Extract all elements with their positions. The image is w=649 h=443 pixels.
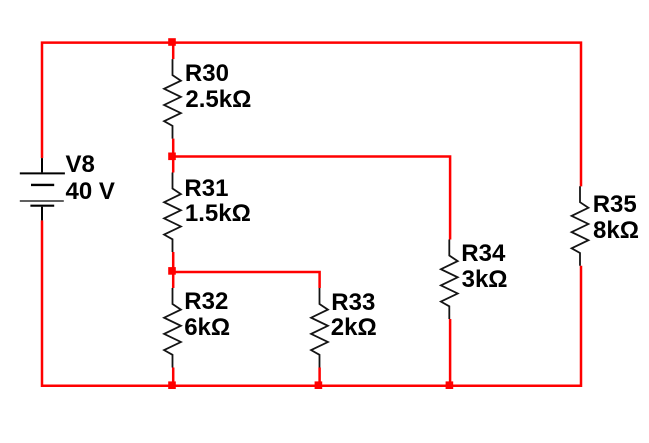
wire: outer loop lower (right bus lower, bottom bus, left bus lower) xyxy=(42,220,581,385)
junction node top bus / R30 xyxy=(168,38,176,46)
label R33 value 2k xyxy=(331,316,377,340)
resistor R34 xyxy=(441,240,458,320)
wire: R30 bottom to node B junction xyxy=(172,139,175,157)
junction node B xyxy=(168,153,176,161)
label R35 value 8k xyxy=(593,219,639,243)
junction node C xyxy=(168,267,176,275)
label R33 refdes xyxy=(331,291,375,315)
resistor R32 xyxy=(164,288,181,368)
wire: R32 bottom to bottom bus xyxy=(172,368,175,386)
wire: outer loop upper (left bus top, top bus, right bus upper) xyxy=(42,43,581,187)
junction bottom bus / R32 xyxy=(168,381,176,389)
wire: R31 bottom to node C junction xyxy=(172,252,175,272)
label R32 refdes xyxy=(184,290,228,314)
resistor R31 xyxy=(164,173,181,253)
label R30 refdes xyxy=(185,62,229,86)
label R31 value 1.5k xyxy=(185,202,251,226)
resistor R33 xyxy=(311,288,328,368)
label R34 refdes xyxy=(461,242,505,266)
wire: node B junction to R31 top xyxy=(172,157,175,173)
wire: R34 bottom to bottom bus xyxy=(449,319,452,386)
wire: node C junction to R32 top xyxy=(172,272,175,288)
junction bottom bus / R34 xyxy=(446,381,454,389)
label R31 refdes xyxy=(184,177,228,201)
resistor R35 xyxy=(572,186,589,266)
wire: node B horizontal (junction under R30 to R34 top) xyxy=(173,157,450,240)
label R34 value 3k xyxy=(462,268,508,292)
label V8 value 40 V xyxy=(66,180,115,204)
wire: R33 bottom to bottom bus xyxy=(318,368,321,386)
wire: node C horizontal (junction under R31 to R33 top) xyxy=(173,272,319,288)
battery V8 xyxy=(20,158,65,220)
label V8 refdes xyxy=(66,153,95,177)
label R30 value 2.5k xyxy=(185,88,251,112)
wire: top bus to R30 top xyxy=(172,43,175,60)
junction bottom bus / R33 xyxy=(315,381,323,389)
resistor R30 xyxy=(164,59,181,139)
label R32 value 6k xyxy=(184,316,230,340)
label R35 refdes xyxy=(593,193,637,217)
